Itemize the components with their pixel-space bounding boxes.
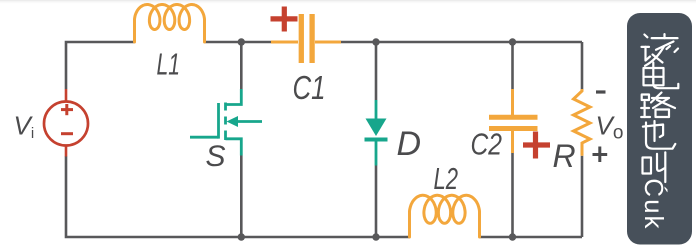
- node bottom at diode branch: [372, 233, 379, 240]
- wire top rail left segment: [66, 42, 135, 89]
- transistor S (MOSFET): [190, 89, 262, 156]
- banner glyph 该: [642, 34, 679, 66]
- wire top rail from C1 to right rail: [341, 41, 582, 44]
- top divider line: [0, 0, 696, 1]
- channel segment bottom: [224, 131, 227, 141]
- drain lead: [226, 89, 242, 105]
- node top at transistor branch: [238, 38, 245, 45]
- banner glyph 路: [641, 93, 675, 118]
- wire transistor branch upper: [240, 42, 243, 89]
- svg-text:Ćuk: Ćuk: [639, 178, 669, 230]
- wire bottom rail right of L2: [480, 236, 583, 239]
- wire right rail upper: [581, 42, 584, 89]
- wire diode branch upper: [375, 42, 378, 100]
- wire top rail from L1 to C1: [205, 41, 272, 44]
- capacitor C1: [271, 14, 341, 63]
- inductor L2: [410, 195, 480, 237]
- node top at C2 branch: [509, 38, 516, 45]
- banner glyph 也: [643, 121, 675, 149]
- wire bottom rail left of L2: [66, 156, 410, 237]
- gate lead: [190, 136, 219, 139]
- gate bar: [217, 103, 220, 139]
- svg-text:S: S: [206, 140, 226, 173]
- wire transistor branch lower: [240, 156, 243, 238]
- capacitor C2: [489, 89, 538, 153]
- node bottom at C2 branch: [509, 233, 516, 240]
- banner panel: [627, 13, 692, 245]
- node top at diode branch: [372, 38, 379, 45]
- voltage source Vi: [44, 89, 88, 157]
- channel segment middle: [224, 117, 227, 125]
- svg-text:C1: C1: [293, 69, 326, 106]
- svg-text:C2: C2: [471, 127, 503, 162]
- node bottom at transistor branch: [238, 233, 245, 240]
- resistor R: [574, 89, 591, 156]
- wire C2 branch upper: [511, 42, 514, 89]
- svg-text:L2: L2: [434, 161, 459, 196]
- plus sign of Vo: [593, 147, 608, 163]
- diode D: [365, 100, 388, 166]
- inductor L1: [135, 5, 205, 43]
- wire C2 branch lower: [511, 153, 514, 237]
- channel segment top: [224, 103, 227, 111]
- plus sign of C2: [523, 132, 550, 159]
- wire diode branch lower: [375, 166, 378, 238]
- wire right rail lower: [581, 156, 584, 237]
- svg-text:D: D: [397, 125, 422, 163]
- source lead: [226, 139, 242, 156]
- svg-text:L1: L1: [157, 47, 181, 82]
- body lead line: [236, 120, 262, 123]
- body arrow head: [227, 116, 239, 127]
- banner glyph 电: [644, 63, 679, 89]
- plus sign of C1: [271, 7, 298, 32]
- banner glyph 叫: [643, 152, 666, 182]
- minus sign of Vo: [596, 90, 606, 93]
- svg-text:R: R: [553, 138, 576, 174]
